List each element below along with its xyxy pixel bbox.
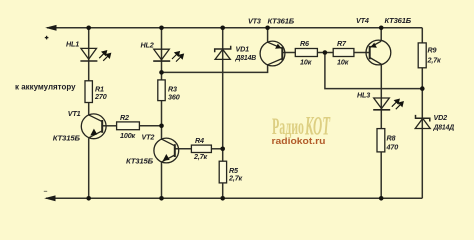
node top VD1 [220,26,225,31]
resistor R1 [85,81,92,103]
svg-text:VT4: VT4 [356,16,369,25]
wire VT3 collector to HL2/R3 node [162,65,268,73]
resistor R4 [191,145,211,152]
svg-text:R9: R9 [428,45,437,54]
wire bottom rail [46,197,422,199]
wire R7 to VT4 base [354,52,370,54]
LED HL2 [153,49,170,61]
svg-text:КТ361Б: КТ361Б [268,17,295,26]
svg-text:10к: 10к [337,58,349,67]
resistor R8 [377,129,385,152]
wire HL2 branch vertical [161,28,163,80]
- terminal arrow [44,195,55,201]
svg-text:HL1: HL1 [66,40,79,49]
wire R6 to R7 [317,52,333,54]
wire VT4 collector down through HL3 to R8 [380,64,382,128]
svg-text:VD2: VD2 [434,113,448,122]
node top VT3 emitter [265,26,270,31]
svg-text:10к: 10к [300,58,312,67]
zener diode VD2 [415,115,430,129]
watermark Radio KOT [272,110,331,140]
resistor R6 [295,49,317,57]
wire VT1 base lead [102,125,116,127]
LED HL2 emission arrows [172,52,183,62]
svg-text:100к: 100к [120,131,136,140]
svg-text:VT1: VT1 [68,109,81,118]
svg-text:360: 360 [168,93,180,102]
svg-text:КТ315Б: КТ315Б [126,156,153,165]
node bottom VT2 emitter [159,196,164,201]
svg-text:270: 270 [94,92,107,101]
plus sign [45,36,49,40]
node HL2 cathode / R3 / VT3 collector [159,70,164,75]
wire VT3 emitter [267,28,269,43]
transistor VT2 emitter arrow [163,154,170,161]
node top HL2 [159,26,164,31]
svg-text:R7: R7 [337,39,347,48]
wire R6/R7 node down and right to R9/VD2 node [325,53,422,89]
transistor VT1 emitter arrow [90,129,97,136]
wire top rail [47,27,422,29]
svg-text:VT2: VT2 [142,133,155,142]
transistor VT3 [260,41,285,66]
wire R4 right to node [211,148,222,150]
wire R8 to bottom rail [380,152,382,198]
wire right side vertical (R9/VD2 branch) [421,28,423,43]
svg-text:R2: R2 [120,113,129,122]
resistor R2 [117,122,140,130]
node R6/R7 [323,50,328,55]
svg-text:КТ361Б: КТ361Б [385,16,412,25]
svg-text:R6: R6 [300,39,310,48]
node R9/VD2 [420,86,425,91]
transistor VT4 emitter arrow (PNP, points to base) [371,43,377,48]
wire R2 right to node [139,125,161,127]
zener diode VD1 [215,46,231,60]
node bottom VT1 emitter [86,196,91,201]
svg-text:HL3: HL3 [357,90,370,99]
transistor VT2 [154,138,179,163]
svg-text:Д814Д: Д814Д [433,123,454,132]
resistor R7 [333,49,354,57]
minus sign [44,190,47,192]
+ terminal arrow [45,25,56,31]
resistor R9 [418,43,426,68]
svg-text:R8: R8 [387,134,396,143]
svg-text:КТ315Б: КТ315Б [53,134,80,143]
svg-text:HL2: HL2 [141,41,154,50]
svg-text:к аккумулятору: к аккумулятору [15,82,76,92]
svg-text:radiokot.ru: radiokot.ru [272,136,326,146]
wire VT2 base to R4 [175,148,192,150]
LED HL3 emission arrows [392,99,403,109]
resistor R3 [158,80,165,101]
svg-text:R4: R4 [195,136,204,145]
wire VD1/R5 branch vertical [222,28,224,161]
transistor VT1 [81,114,106,139]
svg-text:Д814В: Д814В [235,53,256,62]
svg-text:2,7к: 2,7к [228,174,243,183]
wire HL1 branch vertical [88,28,90,81]
wire VT3 base to R6 [282,52,295,54]
wire VT4 emitter [380,28,382,41]
node bottom R5 [220,196,225,201]
node R4/VD1/R5 [220,147,225,152]
LED HL3 [373,98,390,110]
svg-text:2,7к: 2,7к [193,152,208,161]
resistor R5 [219,161,226,183]
transistor VT3 emitter arrow (PNP, points to base) [275,44,281,49]
svg-text:470: 470 [386,143,399,152]
node R2/R3/VT2 collector [159,124,164,129]
node top HL1 [86,26,91,31]
node top VT4 emitter [379,26,384,31]
LED HL1 [80,48,97,61]
svg-text:2,7к: 2,7к [427,56,442,65]
LED HL1 emission arrows [99,51,110,61]
node bottom R8 [379,196,384,201]
svg-text:VT3: VT3 [248,17,261,26]
transistor VT4 [366,40,391,65]
